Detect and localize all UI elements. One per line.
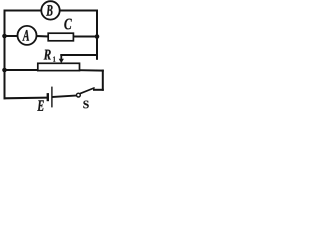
label B xyxy=(46,5,52,16)
label E xyxy=(37,100,44,110)
junction dot right A-row xyxy=(95,34,100,39)
wire left vertical xyxy=(4,11,6,99)
rheostat slider arrow xyxy=(59,54,64,63)
wire bottom from corner to battery xyxy=(5,97,47,100)
junction dot left A-row xyxy=(2,34,7,39)
switch S blade xyxy=(80,88,94,93)
wire switch contact xyxy=(94,89,103,91)
wire battery to switch pivot xyxy=(53,96,77,98)
wire right vertical upper xyxy=(96,11,98,59)
wire lower-right vertical xyxy=(102,71,104,90)
rheostat R1 box xyxy=(38,63,80,70)
wire slider feed horizontal xyxy=(61,54,97,56)
battery E short plate xyxy=(47,93,49,101)
label A xyxy=(22,30,29,41)
label subscript 1 of R1 xyxy=(53,57,55,62)
wire from ammeter A to resistor C xyxy=(36,35,48,38)
label R of R1 xyxy=(44,50,51,60)
switch S pivot circle xyxy=(77,93,81,97)
wire from meter B to top-right corner xyxy=(60,10,97,12)
resistor C box xyxy=(48,33,73,41)
wire from resistor C to right junction xyxy=(74,36,98,38)
battery E long plate xyxy=(51,87,53,108)
label S xyxy=(83,101,88,109)
wire rheostat row left xyxy=(5,69,38,71)
wire node A row left xyxy=(5,35,18,37)
meter B circle xyxy=(41,1,59,19)
junction dot left rheostat-row xyxy=(2,68,7,73)
wire rheostat right to corner xyxy=(80,69,103,71)
label C xyxy=(64,19,71,30)
ammeter A circle xyxy=(18,26,37,45)
wire top-left segment to meter B xyxy=(5,10,42,12)
